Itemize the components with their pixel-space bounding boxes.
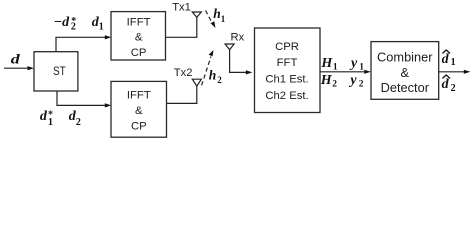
svg-text:Tx2: Tx2: [174, 67, 193, 79]
svg-text:1: 1: [451, 57, 456, 68]
svg-text:&: &: [135, 32, 143, 44]
svg-text:CP: CP: [131, 120, 147, 132]
svg-text:H: H: [320, 56, 333, 71]
block Combiner Detector: [371, 42, 439, 100]
svg-text:ST: ST: [53, 64, 66, 78]
node d2hat label: [442, 75, 456, 94]
block ST: [34, 52, 78, 91]
wire IFFT1 to Tx1 antenna: [166, 17, 197, 37]
svg-text:CP: CP: [131, 47, 147, 59]
svg-text:h: h: [209, 67, 217, 82]
node y1 label: [349, 56, 364, 72]
svg-text:1: 1: [359, 62, 364, 72]
node h2 label: [209, 67, 223, 85]
node y2 label: [348, 73, 363, 89]
svg-text:Detector: Detector: [381, 80, 430, 95]
antenna Rx: [225, 44, 234, 50]
svg-text:Combiner: Combiner: [377, 49, 433, 64]
svg-text:&: &: [135, 105, 143, 117]
svg-text:2: 2: [76, 117, 81, 128]
svg-text:d: d: [442, 52, 450, 67]
svg-text:*: *: [71, 16, 76, 27]
svg-text:1: 1: [221, 14, 226, 24]
svg-text:d: d: [11, 52, 21, 67]
svg-text:CPR: CPR: [275, 41, 299, 53]
node d1* label: [40, 109, 53, 128]
wire Combiner output arrow: [439, 70, 471, 74]
svg-text:Ch2 Est.: Ch2 Est.: [265, 90, 308, 102]
channel h1 dashed arrow: [206, 11, 216, 29]
block CPR FFT Ch1 Est Ch2 Est: [255, 28, 321, 113]
svg-text:y: y: [349, 56, 358, 71]
svg-text:1: 1: [333, 62, 338, 72]
svg-text:h: h: [213, 6, 221, 21]
svg-text:Rx: Rx: [231, 32, 245, 44]
wire d input arrow: [4, 66, 34, 70]
svg-text:FFT: FFT: [277, 57, 298, 69]
svg-text:Tx1: Tx1: [172, 1, 191, 13]
svg-text:d: d: [442, 77, 450, 92]
node h1 label: [213, 6, 225, 24]
svg-text:2: 2: [332, 80, 337, 90]
svg-text:IFFT: IFFT: [127, 90, 151, 102]
svg-text:d: d: [40, 109, 48, 124]
wire ST bottom to IFFT2: [57, 91, 111, 108]
node -d2* label: [54, 15, 77, 33]
svg-text:2: 2: [451, 83, 456, 94]
wire ST top to IFFT1: [56, 35, 111, 52]
svg-text:2: 2: [217, 75, 222, 85]
wire Rx antenna to CPR: [230, 50, 253, 75]
node d1hat label: [442, 50, 456, 68]
antenna Tx1: [192, 12, 201, 17]
wire IFFT2 to Tx2 antenna: [167, 86, 197, 103]
svg-text:*: *: [48, 109, 53, 120]
node d1 label: [92, 15, 104, 33]
svg-text:2: 2: [359, 80, 364, 90]
svg-text:H: H: [320, 73, 333, 88]
node d2 label: [69, 109, 81, 128]
wire CPR to Combiner: [320, 70, 371, 74]
block IFFT CP bottom: [111, 81, 167, 137]
channel h2 dashed arrow: [202, 50, 214, 85]
node H2 label: [320, 73, 337, 89]
antenna Tx2: [192, 79, 201, 86]
svg-text:&: &: [401, 65, 410, 80]
svg-text:Ch1 Est.: Ch1 Est.: [265, 74, 308, 86]
svg-text:−d: −d: [54, 15, 70, 30]
svg-text:y: y: [348, 73, 357, 88]
svg-text:IFFT: IFFT: [127, 16, 151, 28]
block IFFT CP top: [111, 12, 166, 60]
node H1 label: [320, 56, 338, 72]
svg-text:1: 1: [99, 21, 104, 32]
